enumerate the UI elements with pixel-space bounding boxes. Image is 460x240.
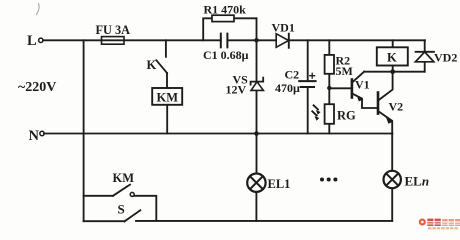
ink speck — [37, 4, 40, 15]
wire base — [329, 87, 352, 89]
svg-text:ELn: ELn — [405, 174, 430, 189]
contactor coil KM — [152, 88, 182, 105]
photoresistor RG — [328, 88, 330, 134]
svg-text:5M: 5M — [336, 64, 353, 78]
light arrows — [312, 105, 318, 115]
resistor R1 — [203, 18, 256, 40]
svg-text:RG: RG — [337, 109, 356, 123]
node junction N rail — [254, 131, 259, 136]
svg-text:C2: C2 — [285, 68, 300, 82]
lamp EL1 — [255, 134, 257, 221]
wire bottom rail — [136, 220, 392, 222]
svg-text:12V: 12V — [226, 83, 247, 97]
svg-text:L: L — [27, 33, 37, 49]
contact KM — [84, 195, 113, 197]
wire N rail — [44, 133, 392, 135]
svg-text:V1: V1 — [355, 78, 370, 92]
svg-text:C1 0.68μ: C1 0.68μ — [203, 48, 249, 62]
diode VD2 — [424, 40, 426, 71]
svg-text:~220V: ~220V — [18, 80, 56, 95]
transistor V2 — [377, 93, 380, 114]
capacitor C2 — [307, 40, 309, 133]
svg-text:K: K — [147, 58, 157, 72]
svg-text:KM: KM — [113, 171, 135, 185]
node collector junction — [390, 69, 395, 74]
resistor R2 — [328, 40, 330, 88]
terminal L — [39, 38, 43, 42]
wire top rail (L) — [43, 39, 425, 41]
node base junction — [327, 86, 331, 90]
terminal N — [40, 131, 44, 135]
svg-text:N: N — [29, 128, 40, 144]
capacitor C1 — [221, 34, 228, 48]
svg-text:VD1: VD1 — [272, 21, 295, 35]
svg-text:VD2: VD2 — [434, 51, 457, 65]
switch S — [84, 220, 125, 222]
watermark logo — [419, 219, 460, 230]
svg-text:EL1: EL1 — [268, 177, 291, 191]
switch contact K — [165, 40, 167, 57]
svg-text:S: S — [118, 202, 125, 217]
svg-text:V2: V2 — [389, 100, 404, 114]
relay coil K — [392, 40, 394, 71]
fuse FU 3A — [102, 37, 125, 45]
svg-text:K: K — [387, 51, 397, 65]
wire collector bus — [364, 71, 425, 73]
svg-text:470μ: 470μ — [275, 81, 300, 95]
transistor V1 — [351, 80, 354, 98]
wire lamp feeder branch — [83, 40, 85, 221]
svg-text:R1 470k: R1 470k — [204, 3, 247, 17]
node junction top — [254, 38, 259, 43]
ellipsis — [320, 178, 324, 182]
svg-text:KM: KM — [157, 91, 179, 105]
zener diode VS — [256, 18, 258, 133]
svg-text:FU 3A: FU 3A — [96, 23, 131, 37]
diode VD1 — [276, 34, 288, 48]
lamp ELn — [391, 134, 393, 221]
